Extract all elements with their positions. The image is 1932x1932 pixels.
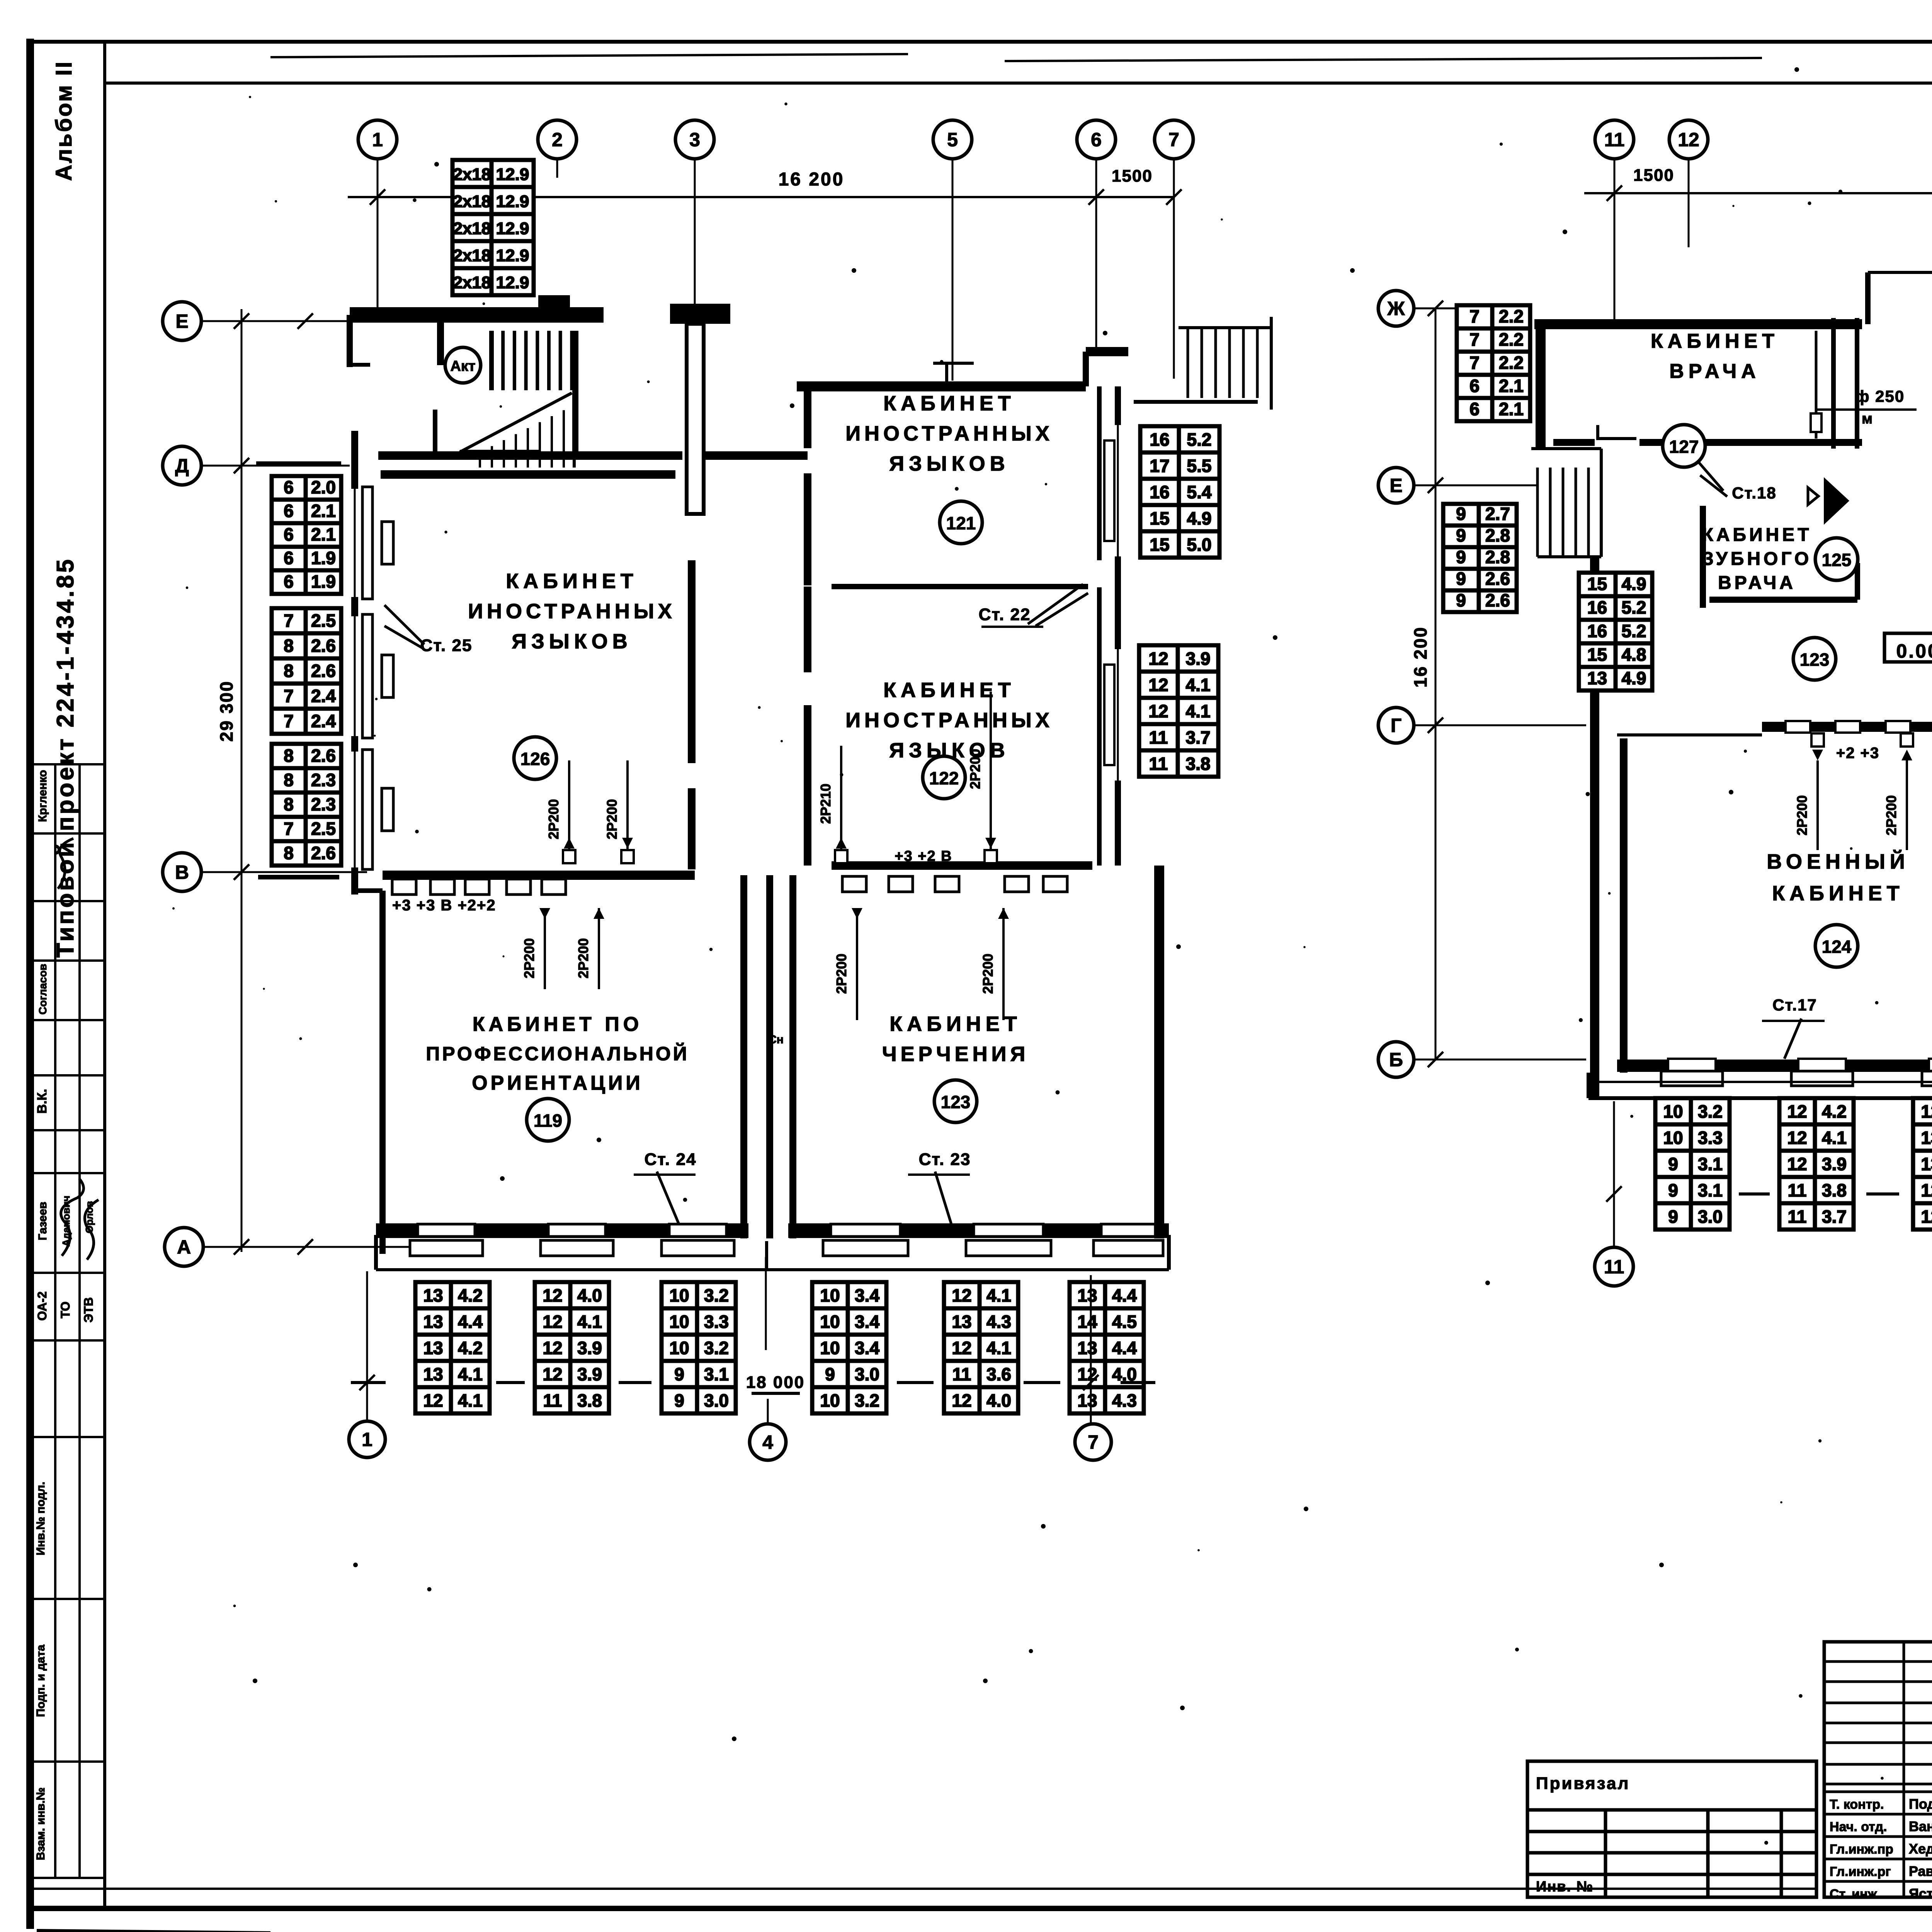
svg-text:9: 9 xyxy=(1456,568,1466,588)
svg-text:Гл.инж.рг: Гл.инж.рг xyxy=(1830,1864,1891,1879)
svg-text:КАБИНЕТ: КАБИНЕТ xyxy=(1651,330,1779,352)
svg-text:18 000: 18 000 xyxy=(746,1373,805,1392)
svg-text:10: 10 xyxy=(820,1311,840,1332)
room 123 left wall xyxy=(789,875,796,1238)
svg-text:3.2: 3.2 xyxy=(1698,1101,1723,1121)
svg-text:ВРАЧА: ВРАЧА xyxy=(1669,360,1760,383)
bottom grid circle 1 xyxy=(349,1421,385,1458)
svg-text:4.2: 4.2 xyxy=(458,1285,483,1305)
svg-text:Нач. отд.: Нач. отд. xyxy=(1830,1820,1887,1834)
svg-text:4.5: 4.5 xyxy=(1112,1311,1137,1332)
svg-text:7: 7 xyxy=(1469,329,1480,349)
svg-text:2Р200: 2Р200 xyxy=(546,799,561,839)
svg-text:12: 12 xyxy=(1077,1364,1097,1384)
svg-text:ТО: ТО xyxy=(58,1301,72,1318)
svg-text:2.2: 2.2 xyxy=(1499,329,1524,349)
svg-text:Т. контр.: Т. контр. xyxy=(1830,1797,1884,1812)
svg-text:3.9: 3.9 xyxy=(577,1364,602,1384)
axis circle Г xyxy=(1378,707,1414,743)
corridor room 123 circle xyxy=(1793,638,1836,680)
svg-text:КАБИНЕТ ПО: КАБИНЕТ ПО xyxy=(473,1013,643,1036)
svg-text:ИНОСТРАННЫХ: ИНОСТРАННЫХ xyxy=(468,600,676,623)
svg-text:13: 13 xyxy=(423,1338,443,1358)
window table B3 xyxy=(662,1282,736,1413)
svg-text:ЧЕРЧЕНИЯ: ЧЕРЧЕНИЯ xyxy=(882,1043,1029,1066)
svg-text:10: 10 xyxy=(669,1338,689,1358)
svg-text:ВРАЧА: ВРАЧА xyxy=(1718,573,1796,593)
svg-text:4.0: 4.0 xyxy=(986,1390,1011,1410)
svg-text:6: 6 xyxy=(1469,399,1480,419)
svg-text:9: 9 xyxy=(1456,590,1466,610)
svg-text:12: 12 xyxy=(952,1285,971,1305)
svg-text:9: 9 xyxy=(1456,525,1466,545)
stair left rail xyxy=(489,331,494,390)
svg-text:3.3: 3.3 xyxy=(704,1311,729,1332)
svg-text:12.9: 12.9 xyxy=(496,246,529,265)
corridor double wall below stairs xyxy=(378,451,682,460)
svg-text:12.9: 12.9 xyxy=(496,273,529,292)
bottom grid circle 4 xyxy=(750,1424,786,1460)
svg-text:6: 6 xyxy=(284,571,294,592)
svg-text:8: 8 xyxy=(284,843,294,863)
svg-text:Подолянский: Подолянский xyxy=(1909,1796,1932,1812)
svg-text:КАБИНЕТ: КАБИНЕТ xyxy=(883,392,1015,415)
svg-text:ЯЗЫКОВ: ЯЗЫКОВ xyxy=(512,630,632,653)
svg-text:4.1: 4.1 xyxy=(1822,1128,1847,1148)
svg-text:ИНОСТРАННЫХ: ИНОСТРАННЫХ xyxy=(845,422,1053,445)
svg-text:3.2: 3.2 xyxy=(704,1285,729,1305)
svg-text:КАБИНЕТ: КАБИНЕТ xyxy=(883,679,1015,702)
ventilation table top xyxy=(452,160,534,295)
svg-text:Д: Д xyxy=(175,455,189,477)
svg-text:Привязал: Привязал xyxy=(1536,1774,1630,1793)
svg-text:4.3: 4.3 xyxy=(1112,1390,1137,1410)
grid circle 12 xyxy=(1669,120,1708,159)
svg-text:ЗУБНОГО: ЗУБНОГО xyxy=(1702,549,1812,569)
lower stair flight with diagonal xyxy=(480,410,564,468)
risers room 122 xyxy=(840,746,842,855)
room 123 right wall xyxy=(1154,866,1164,1238)
svg-text:КАБИНЕТ: КАБИНЕТ xyxy=(1702,525,1812,545)
svg-text:Г: Г xyxy=(1391,715,1401,736)
svg-text:9: 9 xyxy=(1456,503,1466,524)
window table S3 xyxy=(272,744,341,866)
svg-text:Хединский: Хединский xyxy=(1909,1841,1932,1857)
svg-text:Ст. 22: Ст. 22 xyxy=(979,605,1031,624)
svg-text:4.4: 4.4 xyxy=(458,1311,483,1332)
svg-text:Б: Б xyxy=(1389,1049,1403,1071)
svg-text:Ст.17: Ст.17 xyxy=(1772,996,1817,1014)
svg-text:7: 7 xyxy=(284,686,294,706)
frame second top line xyxy=(105,82,1932,85)
svg-text:КАБИНЕТ: КАБИНЕТ xyxy=(506,570,638,593)
svg-text:2.4: 2.4 xyxy=(311,711,336,731)
vertical dimension line left plan xyxy=(241,309,243,1252)
svg-text:2.7: 2.7 xyxy=(1485,503,1510,524)
svg-text:11: 11 xyxy=(1149,727,1168,747)
svg-text:2Р200: 2Р200 xyxy=(1883,795,1899,835)
svg-text:1500: 1500 xyxy=(1633,166,1674,185)
svg-text:3.1: 3.1 xyxy=(704,1364,729,1384)
axis circle Е right xyxy=(1378,468,1414,503)
door triangle corridor xyxy=(1824,477,1849,525)
svg-text:В: В xyxy=(175,862,189,883)
svg-text:3.8: 3.8 xyxy=(1822,1180,1847,1200)
svg-text:16: 16 xyxy=(1587,621,1607,641)
svg-text:11: 11 xyxy=(1788,1180,1807,1200)
svg-text:13: 13 xyxy=(423,1285,443,1305)
axis leaders right plan letters xyxy=(1414,308,1531,310)
svg-text:Инв. №: Инв. № xyxy=(1536,1879,1594,1895)
stair block top wall xyxy=(350,307,604,323)
svg-text:8: 8 xyxy=(284,770,294,790)
svg-text:9: 9 xyxy=(674,1364,684,1384)
svg-text:3.7: 3.7 xyxy=(1186,727,1211,747)
room 126 right wall xyxy=(688,560,696,763)
svg-text:2.6: 2.6 xyxy=(311,843,336,863)
svg-text:4.8: 4.8 xyxy=(1622,645,1646,665)
svg-text:В.К.: В.К. xyxy=(35,1089,49,1114)
window table B4 xyxy=(812,1282,886,1413)
window sills right wall xyxy=(1104,440,1114,541)
axis circle Ж xyxy=(1378,291,1414,326)
svg-text:4.9: 4.9 xyxy=(1622,668,1646,688)
svg-text:8: 8 xyxy=(284,636,294,656)
partition 122/123 xyxy=(832,861,1092,870)
svg-text:5.2: 5.2 xyxy=(1187,429,1212,449)
svg-text:11: 11 xyxy=(952,1364,971,1384)
svg-text:7: 7 xyxy=(1088,1432,1099,1453)
svg-text:4.0: 4.0 xyxy=(577,1285,602,1305)
left wall mid/low right plan xyxy=(1590,557,1599,1098)
svg-text:4.1: 4.1 xyxy=(458,1390,483,1410)
svg-text:7: 7 xyxy=(284,611,294,631)
left outer wall of left plan with windows xyxy=(354,431,356,893)
svg-text:2.3: 2.3 xyxy=(311,794,336,815)
stair landing xyxy=(460,450,539,455)
window table B2 xyxy=(535,1282,609,1413)
grid circle 3 xyxy=(675,120,714,159)
svg-text:1: 1 xyxy=(372,129,383,151)
svg-text:2.2: 2.2 xyxy=(1499,306,1524,326)
svg-text:11: 11 xyxy=(1149,753,1168,774)
svg-text:9: 9 xyxy=(825,1364,835,1384)
svg-text:5.0: 5.0 xyxy=(1187,534,1212,554)
risers room 119 xyxy=(544,908,546,989)
svg-text:7: 7 xyxy=(284,819,294,839)
svg-text:3: 3 xyxy=(689,129,700,151)
svg-text:4.3: 4.3 xyxy=(986,1311,1011,1332)
inner right wall rooms 121/122 xyxy=(1097,386,1102,560)
svg-text:12: 12 xyxy=(543,1285,562,1305)
svg-text:12: 12 xyxy=(543,1338,562,1358)
bottom dimension left plan xyxy=(366,1271,368,1420)
svg-text:12: 12 xyxy=(1678,129,1699,151)
svg-text:2.6: 2.6 xyxy=(311,746,336,766)
stair diagonal xyxy=(460,393,572,452)
svg-text:8: 8 xyxy=(284,794,294,815)
svg-text:Ст. 23: Ст. 23 xyxy=(919,1150,971,1169)
svg-text:2.1: 2.1 xyxy=(311,501,336,521)
svg-text:ф 250: ф 250 xyxy=(1855,387,1905,405)
svg-text:29 300: 29 300 xyxy=(216,680,236,742)
door flag room 121 top xyxy=(945,363,948,386)
duct pipe xyxy=(1815,331,1818,439)
svg-text:9: 9 xyxy=(1456,547,1466,567)
table L2 xyxy=(1443,504,1517,612)
svg-text:12.9: 12.9 xyxy=(496,219,529,238)
svg-text:12: 12 xyxy=(1921,1180,1932,1200)
svg-text:2.6: 2.6 xyxy=(311,636,336,656)
svg-text:КАБИНЕТ: КАБИНЕТ xyxy=(1772,882,1904,905)
svg-text:2.1: 2.1 xyxy=(1499,399,1524,419)
table T2 xyxy=(1779,1098,1854,1230)
svg-text:2Р200: 2Р200 xyxy=(604,799,620,839)
svg-text:Кргленко: Кргленко xyxy=(36,770,49,822)
svg-text:ОА-2: ОА-2 xyxy=(35,1291,49,1321)
svg-text:4.1: 4.1 xyxy=(986,1285,1011,1305)
window frames left wall xyxy=(362,487,372,599)
svg-text:+3 +3 В +2+2: +3 +3 В +2+2 xyxy=(392,897,496,914)
svg-text:10: 10 xyxy=(820,1285,840,1305)
svg-text:11: 11 xyxy=(1604,129,1625,151)
sidebar table xyxy=(29,764,105,1878)
svg-text:9: 9 xyxy=(1668,1206,1678,1226)
svg-text:2Р200: 2Р200 xyxy=(521,938,537,978)
svg-text:13: 13 xyxy=(1077,1285,1097,1305)
svg-text:Е: Е xyxy=(175,311,188,332)
bottom border xyxy=(29,1906,1932,1911)
svg-text:ВОЕННЫЙ: ВОЕННЫЙ xyxy=(1767,850,1909,873)
svg-text:13: 13 xyxy=(423,1364,443,1384)
svg-text:Ст. инж: Ст. инж xyxy=(1830,1887,1878,1901)
axis leader lines left plan letters xyxy=(201,320,352,322)
svg-text:13: 13 xyxy=(1921,1128,1932,1148)
bottom wall room 119 xyxy=(376,1223,748,1238)
svg-text:12.9: 12.9 xyxy=(496,165,529,184)
svg-text:ОРИЕНТАЦИИ: ОРИЕНТАЦИИ xyxy=(472,1072,643,1094)
risers room 126 xyxy=(568,760,570,855)
table T3 xyxy=(1913,1098,1932,1230)
svg-text:6: 6 xyxy=(284,477,294,497)
axis leaders right plan top xyxy=(1614,159,1616,321)
bottom band right plan xyxy=(1588,1081,1932,1083)
svg-text:3.8: 3.8 xyxy=(1186,753,1211,774)
svg-text:119: 119 xyxy=(534,1111,562,1131)
svg-text:11: 11 xyxy=(543,1390,562,1410)
svg-text:12: 12 xyxy=(423,1390,443,1410)
svg-text:м: м xyxy=(1862,411,1872,427)
svg-text:10: 10 xyxy=(669,1285,689,1305)
svg-text:3.0: 3.0 xyxy=(1698,1206,1723,1226)
sill boxes under partition 122/123 xyxy=(842,876,866,892)
top dimension line right plan xyxy=(1584,192,1932,194)
svg-text:2.1: 2.1 xyxy=(1499,376,1524,396)
svg-text:Гл.инж.пр: Гл.инж.пр xyxy=(1830,1842,1893,1857)
svg-text:Альбом II: Альбом II xyxy=(51,60,77,181)
svg-text:12: 12 xyxy=(543,1311,562,1332)
svg-text:12: 12 xyxy=(543,1364,562,1384)
svg-text:12: 12 xyxy=(952,1338,971,1358)
svg-text:2.0: 2.0 xyxy=(311,477,336,497)
bottom wall room 123 xyxy=(788,1223,1169,1238)
svg-text:9: 9 xyxy=(1668,1154,1678,1174)
svg-text:5.5: 5.5 xyxy=(1187,456,1212,476)
svg-text:Газеев: Газеев xyxy=(36,1202,49,1240)
svg-text:3.6: 3.6 xyxy=(986,1364,1011,1384)
svg-text:8: 8 xyxy=(284,746,294,766)
svg-text:13: 13 xyxy=(1077,1390,1097,1410)
wall stub xyxy=(437,323,444,365)
svg-text:10: 10 xyxy=(669,1311,689,1332)
svg-text:Ванин: Ванин xyxy=(1909,1818,1932,1834)
svg-text:15: 15 xyxy=(1587,574,1607,594)
svg-text:3.1: 3.1 xyxy=(1698,1180,1723,1200)
room 119 right wall xyxy=(740,875,747,1238)
svg-text:ЯЗЫКОВ: ЯЗЫКОВ xyxy=(889,452,1009,475)
window table B1 xyxy=(415,1282,490,1413)
svg-text:Ст.18: Ст.18 xyxy=(1732,484,1777,502)
svg-text:15: 15 xyxy=(1150,534,1169,554)
svg-text:1.9: 1.9 xyxy=(311,548,336,568)
svg-text:Сн: Сн xyxy=(768,1033,784,1046)
svg-text:Согласов: Согласов xyxy=(37,964,49,1015)
svg-text:КАБИНЕТ: КАБИНЕТ xyxy=(889,1012,1022,1036)
svg-text:3.9: 3.9 xyxy=(1186,648,1211,668)
window table RA xyxy=(1140,426,1219,558)
svg-text:14: 14 xyxy=(1077,1311,1097,1332)
svg-text:2: 2 xyxy=(552,129,563,151)
svg-text:13: 13 xyxy=(952,1311,971,1332)
axis leader lines left plan top xyxy=(377,159,379,307)
svg-text:2.6: 2.6 xyxy=(1485,590,1510,610)
svg-text:Равипорт: Равипорт xyxy=(1909,1863,1932,1879)
grid circle 11 xyxy=(1595,120,1634,159)
svg-text:15: 15 xyxy=(1150,508,1169,528)
axis circle В xyxy=(163,853,201,891)
svg-text:13: 13 xyxy=(423,1311,443,1332)
svg-text:122: 122 xyxy=(929,768,959,788)
svg-text:4.9: 4.9 xyxy=(1622,574,1646,594)
svg-text:3.4: 3.4 xyxy=(855,1285,879,1305)
window table B5 xyxy=(944,1282,1018,1413)
grid circle 6 xyxy=(1077,120,1116,159)
svg-text:2x18: 2x18 xyxy=(453,165,491,184)
grid circle 2 xyxy=(538,120,577,159)
svg-text:16: 16 xyxy=(1150,429,1169,449)
bottom inner line xyxy=(29,1888,1816,1890)
bottom dimension right plan xyxy=(1613,1101,1615,1246)
table T1 xyxy=(1655,1098,1730,1230)
svg-text:16: 16 xyxy=(1587,597,1607,617)
svg-text:12: 12 xyxy=(1921,1206,1932,1226)
entry jamb wall xyxy=(1865,272,1871,324)
stair stub wall xyxy=(433,410,437,457)
room 121 top wall xyxy=(797,381,1086,391)
svg-text:ИНОСТРАННЫХ: ИНОСТРАННЫХ xyxy=(845,709,1053,732)
svg-text:2Р200: 2Р200 xyxy=(575,938,591,978)
svg-text:Ст. 24: Ст. 24 xyxy=(645,1150,697,1169)
svg-text:+2 +3: +2 +3 xyxy=(1836,745,1879,762)
svg-text:4.2: 4.2 xyxy=(1822,1101,1847,1121)
svg-text:Подп. и дата: Подп. и дата xyxy=(34,1645,47,1717)
svg-text:12: 12 xyxy=(1148,648,1168,668)
svg-text:3.0: 3.0 xyxy=(855,1364,879,1384)
svg-text:Ж: Ж xyxy=(1387,298,1405,320)
0.000 level mark xyxy=(1884,633,1932,662)
window table B6 xyxy=(1070,1282,1144,1413)
bottom grid circle 11 xyxy=(1595,1247,1633,1286)
svg-text:ПРОФЕССИОНАЛЬНОЙ: ПРОФЕССИОНАЛЬНОЙ xyxy=(426,1043,689,1065)
svg-text:4: 4 xyxy=(762,1432,773,1453)
upper stair flight treads xyxy=(492,331,572,390)
grid circle 7 xyxy=(1155,120,1193,159)
svg-text:6: 6 xyxy=(284,501,294,521)
room 127 left wall xyxy=(1539,328,1545,442)
risers room 123 xyxy=(856,908,858,1020)
svg-text:3.0: 3.0 xyxy=(704,1390,729,1410)
svg-text:4.4: 4.4 xyxy=(1112,1338,1137,1358)
svg-text:10: 10 xyxy=(1663,1128,1683,1148)
window table S1 xyxy=(272,476,341,594)
svg-text:3.4: 3.4 xyxy=(855,1311,879,1332)
svg-text:2.6: 2.6 xyxy=(311,661,336,681)
svg-text:2.1: 2.1 xyxy=(311,524,336,544)
svg-text:3.9: 3.9 xyxy=(1822,1154,1847,1174)
svg-text:4.9: 4.9 xyxy=(1187,508,1212,528)
svg-text:ЭТВ: ЭТВ xyxy=(82,1297,95,1322)
window table RB xyxy=(1139,645,1218,777)
signature table xyxy=(1824,1642,1932,1897)
svg-text:3.2: 3.2 xyxy=(704,1338,729,1358)
svg-text:0.000: 0.000 xyxy=(1896,640,1932,662)
table L3 xyxy=(1579,573,1652,690)
partition 121/122 xyxy=(832,584,1088,589)
table L1 xyxy=(1457,305,1530,421)
axis circle Б xyxy=(1378,1042,1414,1077)
svg-text:16: 16 xyxy=(1150,482,1169,502)
привязал table xyxy=(1527,1761,1816,1897)
axis В leader bar xyxy=(258,875,339,879)
svg-text:5.4: 5.4 xyxy=(1187,482,1212,502)
svg-text:5.2: 5.2 xyxy=(1622,597,1646,617)
svg-text:13: 13 xyxy=(1077,1338,1097,1358)
svg-text:Взам. инв.№: Взам. инв.№ xyxy=(34,1787,47,1861)
rooms 121/122 left wall xyxy=(804,386,811,448)
svg-text:7: 7 xyxy=(284,711,294,731)
svg-text:Ст. 25: Ст. 25 xyxy=(420,636,473,655)
svg-text:2Р200: 2Р200 xyxy=(833,954,849,994)
svg-text:13: 13 xyxy=(1587,668,1607,688)
axis Д leader bar xyxy=(256,461,341,466)
svg-text:5: 5 xyxy=(947,129,958,151)
right plan top wall xyxy=(1534,319,1862,329)
room 125 walls xyxy=(1700,506,1706,608)
corridor wall right of room 119 xyxy=(766,875,773,1238)
svg-text:12: 12 xyxy=(1148,675,1168,695)
top dimension line left plan xyxy=(348,196,1174,198)
svg-text:2.4: 2.4 xyxy=(311,686,336,706)
axis circle Е xyxy=(163,302,201,340)
svg-text:2Р200: 2Р200 xyxy=(1794,795,1810,835)
svg-text:2x18: 2x18 xyxy=(453,273,491,292)
svg-text:7: 7 xyxy=(1469,352,1480,372)
svg-text:11: 11 xyxy=(1604,1256,1624,1278)
svg-text:2x18: 2x18 xyxy=(453,246,491,265)
svg-text:8: 8 xyxy=(284,661,294,681)
sidebar separator xyxy=(103,42,106,1909)
grid circle 5 xyxy=(933,120,972,159)
